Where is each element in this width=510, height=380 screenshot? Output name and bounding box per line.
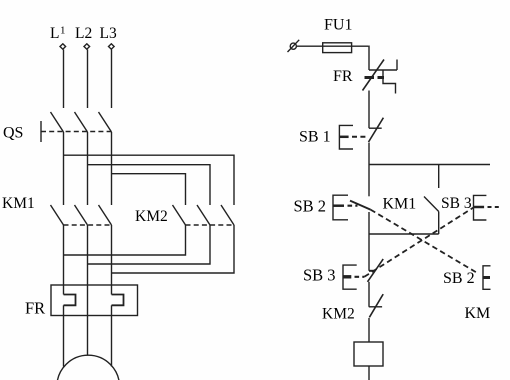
- svg-text:SB 2: SB 2: [294, 197, 327, 216]
- svg-text:FU1: FU1: [324, 16, 352, 33]
- svg-text:SB 3: SB 3: [303, 266, 336, 285]
- svg-text:SB 2: SB 2: [443, 270, 475, 287]
- svg-text:QS: QS: [3, 125, 23, 142]
- svg-text:SB 1: SB 1: [299, 128, 331, 145]
- svg-text:L2: L2: [75, 25, 92, 42]
- svg-text:FR: FR: [333, 68, 353, 85]
- svg-text:L3: L3: [100, 25, 117, 42]
- svg-text:KM2: KM2: [322, 306, 355, 323]
- svg-text:SB 3: SB 3: [441, 195, 472, 212]
- svg-text:KM1: KM1: [383, 196, 417, 213]
- svg-text:KM: KM: [465, 305, 491, 322]
- svg-text:KM1: KM1: [2, 195, 35, 212]
- svg-text:FR: FR: [25, 299, 45, 318]
- svg-text:KM2: KM2: [135, 208, 168, 225]
